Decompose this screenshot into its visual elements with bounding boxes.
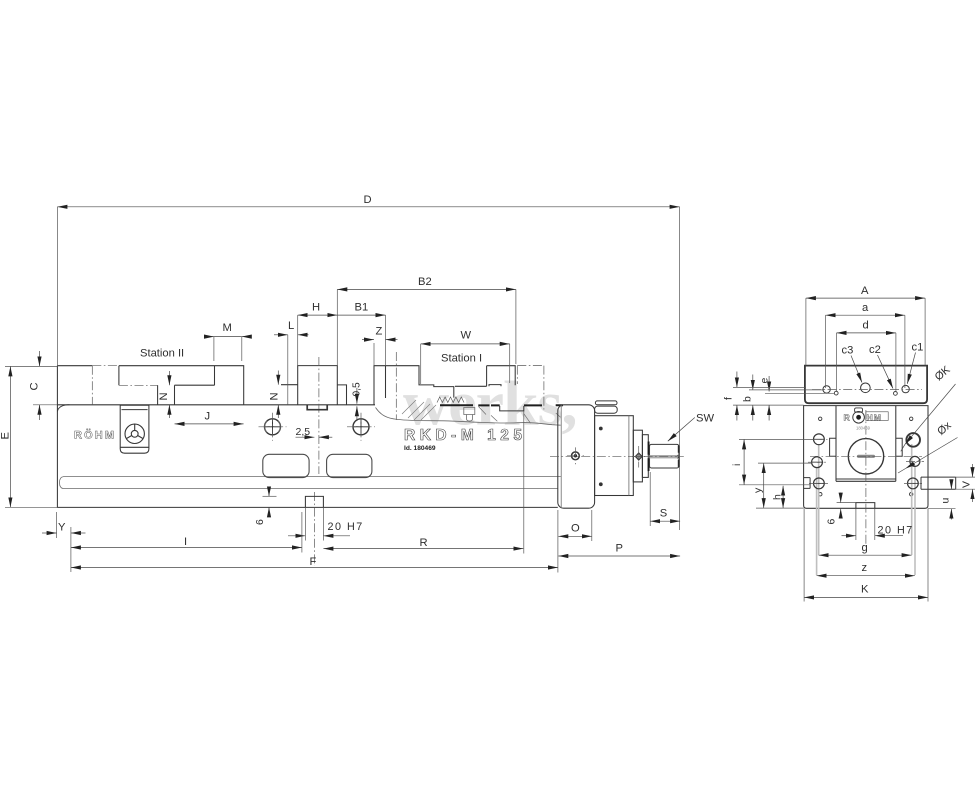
svg-text:E: E: [0, 432, 12, 439]
ROHM emblem end: [855, 408, 863, 412]
dim H: [298, 314, 338, 316]
body outline: [57, 366, 557, 508]
ROHM logo body: [74, 429, 114, 442]
svg-text:2,5: 2,5: [296, 426, 311, 438]
dim P: [558, 555, 680, 557]
station I jaw centerline: [395, 352, 397, 420]
svg-text:Station II: Station II: [140, 348, 184, 360]
svg-text:O: O: [571, 523, 580, 535]
jaw plate: [805, 366, 927, 404]
SW leader: [668, 418, 695, 442]
dim Y: [42, 532, 57, 534]
small pin holes: [819, 417, 822, 420]
svg-text:i: i: [731, 464, 743, 466]
svg-text:B2: B2: [418, 276, 432, 288]
plate holes: [823, 386, 830, 393]
svg-text:D: D: [364, 194, 372, 206]
svg-text:e: e: [758, 378, 770, 384]
keyway slot side: [305, 496, 323, 507]
dim d: [837, 332, 896, 334]
dim S: [650, 520, 680, 522]
dim B1: [337, 314, 385, 316]
handle slot 2: [327, 454, 372, 477]
movable jaw center: [281, 366, 347, 405]
svg-text:Station I: Station I: [441, 353, 482, 365]
hatch marks: [402, 400, 436, 420]
station I right jaw: [455, 366, 515, 387]
dim Z station I: [362, 339, 374, 341]
svg-text:K: K: [861, 584, 869, 596]
svg-text:P: P: [616, 542, 623, 554]
svg-text:z: z: [862, 562, 868, 574]
svg-text:H: H: [312, 302, 320, 314]
ring: [642, 435, 648, 478]
dim R: [323, 548, 523, 550]
dim 0,5: [356, 388, 358, 404]
hatch marks right: [479, 407, 561, 424]
svg-text:Id. 180469: Id. 180469: [404, 445, 436, 452]
clamp tab right: [921, 477, 956, 489]
right holes: [808, 433, 924, 489]
svg-text:180469: 180469: [856, 426, 871, 431]
dim I: [71, 547, 302, 549]
svg-text:S: S: [660, 508, 667, 520]
svg-text:c3: c3: [842, 345, 854, 357]
svg-text:C: C: [29, 382, 41, 390]
svg-text:F: F: [310, 556, 317, 568]
handle slot 1: [263, 454, 309, 477]
dim i: [743, 439, 745, 484]
dim 6 side: [268, 487, 270, 497]
screw in tear-out: [464, 408, 475, 422]
svg-text:Y: Y: [58, 522, 66, 534]
body screw 1: [259, 413, 287, 441]
svg-text:R: R: [844, 412, 851, 422]
dim E: [9, 366, 11, 507]
dim J: [175, 423, 244, 425]
svg-text:g: g: [862, 542, 868, 554]
keyway centerline: [313, 492, 315, 566]
dim h: [782, 486, 784, 508]
dim a: [826, 314, 905, 316]
dim D: [57, 206, 679, 208]
dim y: [763, 463, 765, 508]
svg-text:20 H7: 20 H7: [878, 525, 914, 537]
spindle centerline: [550, 455, 686, 457]
dim L: [274, 334, 288, 336]
svg-text:d: d: [863, 320, 869, 332]
groove: [60, 477, 561, 489]
station I left jaw: [374, 366, 454, 405]
crosshair: [810, 410, 922, 545]
svg-text:c1: c1: [912, 342, 924, 354]
RKD-M 125 logo: [404, 427, 526, 444]
dim C: [39, 351, 41, 366]
plate centerline: [812, 389, 922, 391]
svg-text:h: h: [772, 494, 784, 500]
end plate bracket: [558, 405, 595, 508]
svg-text:V: V: [961, 481, 973, 488]
svg-text:A: A: [861, 285, 869, 297]
collar black: [648, 442, 650, 455]
dim 20H7 end: [842, 535, 856, 537]
g z extension bands: [817, 444, 915, 575]
svg-text:RÖHM: RÖHM: [74, 429, 114, 442]
end body: [804, 406, 928, 509]
dim 20H7 side: [288, 535, 305, 537]
svg-text:SW: SW: [696, 413, 714, 425]
dim N movable jaw: [277, 371, 279, 385]
center block: [836, 406, 896, 482]
hidden line jaw II: [92, 366, 157, 405]
svg-text:W: W: [461, 330, 472, 342]
flange tabs: [595, 401, 617, 405]
spindle slot: [857, 455, 875, 458]
dim 6 end: [840, 493, 842, 503]
flange: [595, 416, 634, 496]
end screw: [572, 452, 580, 460]
dim B2: [337, 288, 516, 290]
dim N jaw II: [168, 371, 170, 385]
svg-text:HM: HM: [867, 412, 882, 422]
clamp bracket left: [120, 405, 149, 453]
dim u: [950, 480, 952, 490]
dim O: [558, 535, 592, 537]
svg-text:J: J: [205, 410, 211, 422]
hex spindle: [650, 444, 679, 468]
svg-text:y: y: [752, 487, 764, 493]
spacer: [633, 430, 642, 482]
groove rect left: [804, 478, 811, 489]
svg-text:Z: Z: [376, 325, 383, 337]
svg-text:6: 6: [826, 519, 838, 525]
svg-text:u: u: [940, 498, 952, 504]
clamp knob: [125, 424, 144, 443]
svg-text:N: N: [269, 392, 281, 400]
svg-text:f: f: [723, 397, 735, 400]
block notches: [830, 438, 903, 456]
svg-text:c2: c2: [869, 344, 881, 356]
fixed jaw station II: [57, 366, 243, 405]
left holes: [811, 434, 828, 489]
svg-text:ØK: ØK: [933, 363, 953, 383]
svg-text:M: M: [223, 322, 232, 334]
flange screw diamond: [635, 453, 642, 460]
dims f b e: [736, 372, 738, 388]
dim W: [421, 343, 510, 345]
svg-text:a: a: [862, 302, 869, 314]
svg-text:RKD-M 125: RKD-M 125: [404, 427, 526, 444]
notch under movable jaw: [307, 405, 327, 410]
keyway end view: [856, 503, 875, 509]
svg-text:Øx: Øx: [935, 419, 954, 438]
svg-text:N: N: [158, 392, 170, 400]
svg-text:6: 6: [254, 519, 266, 525]
spindle circle: [848, 439, 883, 474]
tear-out break line: [376, 408, 561, 426]
dim g: [819, 554, 912, 556]
svg-text:0,5: 0,5: [352, 382, 363, 396]
dim F: [71, 567, 558, 569]
svg-text:B1: B1: [355, 302, 369, 314]
svg-text:R: R: [420, 537, 428, 549]
dim V: [972, 464, 974, 477]
serration zigzag: [437, 397, 464, 403]
body screw 2: [347, 413, 375, 441]
svg-text:20 H7: 20 H7: [328, 521, 364, 533]
serration bold lines: [440, 404, 563, 406]
dim K: [804, 596, 928, 598]
svg-text:L: L: [288, 320, 294, 332]
phantom jaw position: [517, 366, 544, 410]
flange screws: [599, 427, 603, 431]
dim A: [806, 297, 925, 299]
dim M: [205, 336, 214, 338]
svg-text:b: b: [742, 396, 754, 402]
dim z: [817, 575, 915, 577]
jaw centerline: [318, 357, 320, 474]
svg-text:I: I: [184, 536, 187, 548]
body corner fillet: [57, 405, 69, 412]
